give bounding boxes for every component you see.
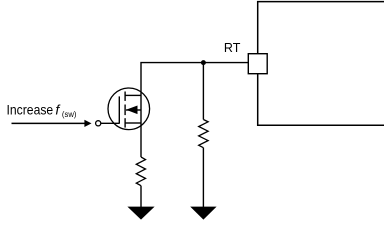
svg-text:RT: RT [224, 41, 241, 55]
svg-text:Increase: Increase [7, 102, 54, 118]
gate input open circle [96, 121, 101, 126]
svg-text:(sw): (sw) [62, 110, 77, 119]
channel dash middle [124, 105, 126, 116]
body arrow [126, 106, 138, 115]
pin RT (square on IC edge) [248, 54, 267, 74]
node A (junction dot) [201, 60, 206, 65]
wire: gate lead [101, 122, 120, 124]
ground (arrow symbol, left) [127, 207, 154, 220]
transistor body circle [108, 88, 150, 130]
wire: R1 to ground [140, 186, 142, 207]
body stub [126, 109, 141, 111]
IC outline [258, 2, 384, 126]
source stub [125, 122, 141, 124]
transistor (N-channel MOSFET) [108, 88, 150, 130]
resistor R2 (below node A) [199, 120, 208, 148]
gate bar [118, 96, 120, 123]
ground (arrow symbol, right) [190, 207, 216, 220]
wire: node A to RT pin [203, 62, 249, 64]
drain stub [125, 94, 141, 96]
label RT [224, 41, 241, 55]
wire: MOSFET drain up and across to node A [141, 63, 203, 157]
resistor R1 (below MOSFET source) [136, 157, 145, 186]
wire: R2 to ground [202, 148, 204, 207]
wire: node A down to resistor R2 [202, 63, 204, 120]
channel dash bottom [124, 118, 126, 127]
channel dash top [124, 92, 126, 101]
label Increase f(sw) [7, 101, 77, 119]
input arrow [12, 120, 92, 127]
